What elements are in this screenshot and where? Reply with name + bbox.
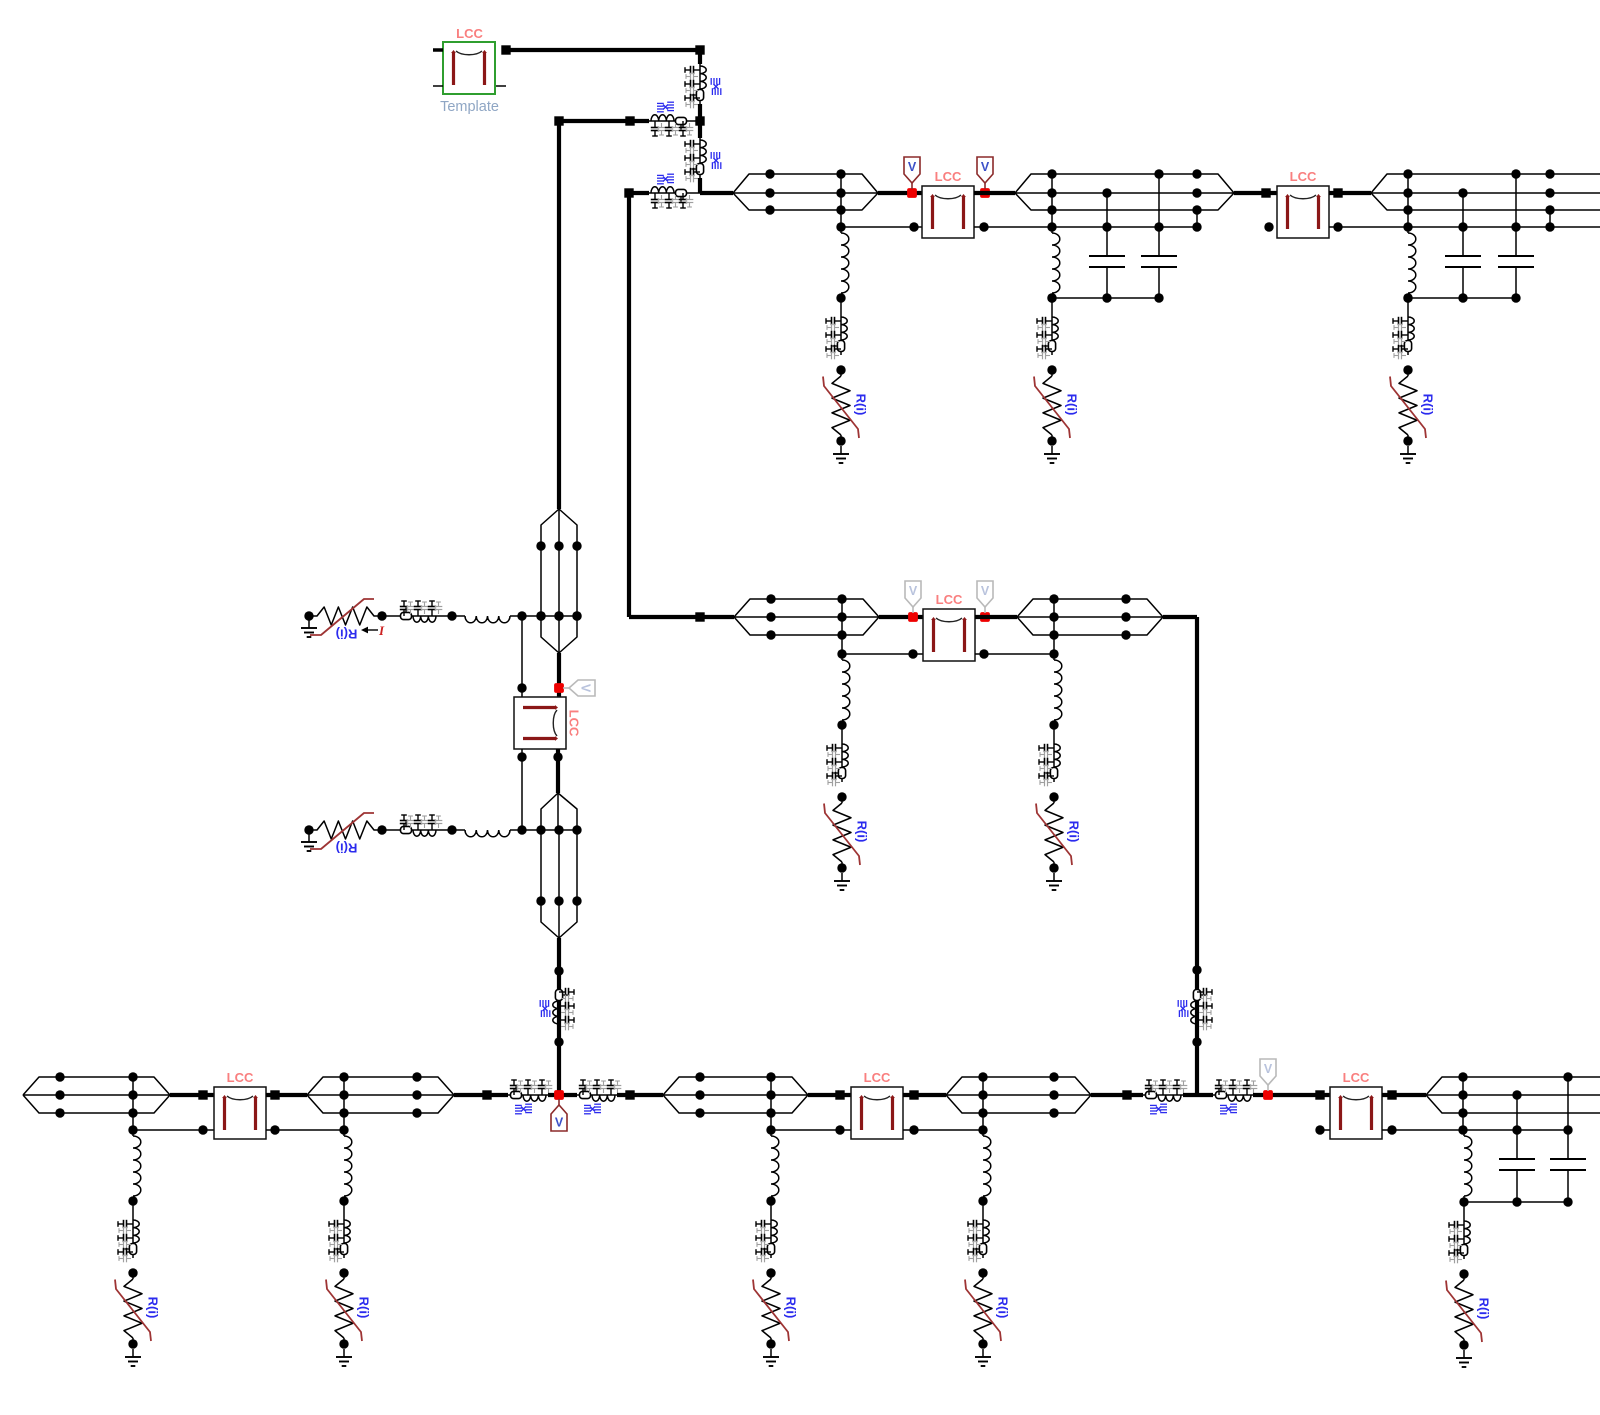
wire SA7 link bbox=[343, 1201, 345, 1218]
node center row-upper a bbox=[536, 611, 545, 620]
node x1052 b bbox=[1047, 188, 1056, 197]
node mid x1126 a bbox=[1121, 594, 1130, 603]
node SA5 bottom bbox=[1049, 863, 1058, 872]
wire bot east 1 bbox=[1091, 1093, 1143, 1097]
node x983 c bbox=[978, 1108, 987, 1117]
node SA2 mid bbox=[1047, 365, 1056, 374]
svg-text:R(i): R(i) bbox=[1065, 394, 1080, 416]
inductor SA4 shunt coil bbox=[842, 660, 850, 720]
node neutral LCC5 left bbox=[198, 1125, 207, 1134]
node C6 neutral bbox=[1563, 1125, 1572, 1134]
wire feeder vertical lower bbox=[698, 178, 702, 193]
ground SA3 bbox=[1407, 446, 1409, 454]
surge arrester R(i) source-lower bbox=[309, 821, 382, 839]
node source-lower 1 bbox=[377, 825, 386, 834]
wire template to corner bbox=[503, 48, 700, 52]
node neutral x1269 bbox=[1264, 222, 1273, 231]
surge arrester R(i) SA6 bbox=[132, 1273, 134, 1279]
wire bot phases seg5 bbox=[1463, 1076, 1600, 1078]
node x417 c bbox=[412, 1108, 421, 1117]
LCC line template block (green) bbox=[443, 42, 495, 94]
node SA9 mid bbox=[978, 1268, 987, 1277]
node x771 n bbox=[766, 1125, 775, 1134]
neutral stub LCC7 left bbox=[1320, 1129, 1330, 1131]
node SA8 coil-bottom bbox=[766, 1196, 775, 1205]
node C6 top bbox=[1563, 1072, 1572, 1081]
node corner branch A bbox=[554, 116, 563, 125]
inductor SA2 shunt coil bbox=[1052, 233, 1060, 293]
ground source-lower bbox=[308, 830, 310, 842]
wire feeder vertical mid bbox=[698, 104, 702, 138]
node bot e1 bbox=[1122, 1090, 1131, 1099]
RLC branch SA3 bbox=[1407, 315, 1409, 355]
node LCC7 bottom-left bbox=[1315, 1125, 1324, 1134]
node SA5 coil-bottom bbox=[1049, 720, 1058, 729]
svg-text:R(i): R(i) bbox=[1477, 1298, 1492, 1320]
svg-text:V: V bbox=[579, 684, 593, 693]
node x1054b a bbox=[1049, 1072, 1058, 1081]
node corner top bbox=[695, 45, 704, 54]
wire bot connector x344 bbox=[343, 1077, 345, 1130]
svg-text:LCC: LCC bbox=[935, 169, 962, 184]
node T1 phase b bbox=[765, 188, 774, 197]
svg-text:LCC: LCC bbox=[456, 26, 483, 41]
3-phase splitter M1 bbox=[734, 599, 771, 617]
wire bot phases seg4 bbox=[983, 1076, 1054, 1078]
inductor SA9 shunt coil bbox=[983, 1136, 991, 1196]
node M1 a bbox=[766, 594, 775, 603]
3-phase splitter B3 bbox=[307, 1077, 344, 1095]
3-phase merger T4 bbox=[1197, 174, 1234, 193]
wire top connector x1197 bbox=[1196, 210, 1198, 227]
3-phase merger B8 bbox=[1054, 1077, 1091, 1095]
svg-text:I: I bbox=[378, 623, 385, 638]
template stub pin left-bottom bbox=[433, 85, 443, 87]
node bus6 bbox=[1511, 293, 1520, 302]
node corner branch B bbox=[624, 188, 633, 197]
3-phase merger M4 bbox=[1126, 599, 1163, 617]
wire bot phases seg2 bbox=[344, 1076, 417, 1078]
neutral LCC5 right bbox=[266, 1129, 344, 1131]
svg-text:R(i): R(i) bbox=[336, 627, 358, 642]
node x1054b b bbox=[1049, 1090, 1058, 1099]
node x1197 n bbox=[1192, 222, 1201, 231]
svg-text:R(i): R(i) bbox=[1421, 394, 1436, 416]
node SA3 mid bbox=[1403, 365, 1412, 374]
wire SA1 link bbox=[840, 298, 842, 315]
node source-upper bundle a bbox=[536, 611, 545, 620]
node neutral LCC7 bbox=[1387, 1125, 1396, 1134]
current probe I bbox=[366, 629, 378, 631]
wire bot connector x133 bbox=[132, 1077, 134, 1130]
svg-text:LCC: LCC bbox=[227, 1070, 254, 1085]
RLC branch bot-east-right bbox=[1213, 1094, 1253, 1096]
3-phase splitter B5 bbox=[663, 1077, 700, 1095]
wire bot connector x1463 bbox=[1462, 1077, 1464, 1130]
node x1408 a bbox=[1403, 169, 1412, 178]
wire bot rlc join left bbox=[548, 1093, 577, 1097]
surge arrester R(i) SA3 bbox=[1407, 370, 1409, 376]
node SA6 mid bbox=[128, 1268, 137, 1277]
wire into LCC1 bbox=[878, 191, 922, 195]
svg-text:R(i): R(i) bbox=[357, 1297, 372, 1319]
wire mid phases seg1 bbox=[771, 598, 842, 600]
node after LCC5 bbox=[270, 1090, 279, 1099]
voltage probe V4 (inactive) bbox=[984, 607, 986, 613]
wire into LCC2 bbox=[1234, 191, 1277, 195]
wire LCC3 to splitter bbox=[975, 615, 1017, 619]
svg-text:V: V bbox=[981, 584, 990, 598]
surge arrester R(i) source-upper bbox=[309, 607, 382, 625]
RLC branch source-lower bbox=[398, 829, 438, 831]
RLC branch SA1 bbox=[840, 315, 842, 355]
template stub pin right-bottom bbox=[496, 85, 506, 87]
svg-text:R(i): R(i) bbox=[854, 394, 869, 416]
3-phase splitter T1 bbox=[733, 174, 770, 193]
node SA7 coil-bottom bbox=[339, 1196, 348, 1205]
RLC branch SA4 bbox=[841, 742, 843, 782]
node x983 n bbox=[978, 1125, 987, 1134]
svg-text:V: V bbox=[1264, 1062, 1273, 1076]
node mid x1126 c bbox=[1121, 630, 1130, 639]
node mid x1054 a bbox=[1049, 594, 1058, 603]
inductor source-upper bbox=[465, 616, 510, 623]
wire SA2 lead bbox=[1051, 227, 1053, 233]
node x700 a bbox=[695, 1072, 704, 1081]
surge arrester R(i) SA2 bbox=[1051, 370, 1053, 376]
node LCC4 in-left bbox=[517, 683, 526, 692]
ground SA7 bbox=[343, 1349, 345, 1357]
bus top shunt right bbox=[1408, 297, 1516, 299]
wire into LCC3 bbox=[879, 615, 923, 619]
LCC line block LCC7 bbox=[1330, 1087, 1382, 1139]
node V4 (red) bbox=[980, 612, 990, 622]
inductor SA5 shunt coil bbox=[1054, 660, 1062, 720]
inductor shunt x1464 bbox=[1463, 1130, 1465, 1136]
wire LCC4 left pin down bbox=[521, 749, 523, 830]
3-phase splitter B7 bbox=[946, 1077, 983, 1095]
ground SA1 bbox=[840, 446, 842, 454]
svg-text:LCC: LCC bbox=[567, 710, 582, 737]
3-phase splitter CV3 bbox=[541, 793, 558, 830]
wire source-lower b bbox=[438, 829, 465, 831]
node center above RLC bbox=[554, 966, 563, 975]
node x1408 c bbox=[1403, 205, 1412, 214]
3-phase merger B6 bbox=[771, 1077, 808, 1095]
ground SA9 bbox=[982, 1349, 984, 1357]
node mid x1126 b bbox=[1121, 612, 1130, 621]
node x1463 a bbox=[1458, 1072, 1467, 1081]
node x1463 c bbox=[1458, 1108, 1467, 1117]
node C3 neutral bbox=[1458, 222, 1467, 231]
svg-text:V: V bbox=[981, 160, 990, 174]
node SA7 mid bbox=[339, 1268, 348, 1277]
node x1197 b bbox=[1192, 188, 1201, 197]
node SA8 mid bbox=[766, 1268, 775, 1277]
node mid feed bbox=[695, 612, 704, 621]
wire bot connector x983 bbox=[982, 1077, 984, 1130]
surge arrester R(i) SA9 bbox=[982, 1273, 984, 1279]
node SA3 coil-bottom bbox=[1403, 293, 1412, 302]
neutral mid left bbox=[842, 653, 923, 655]
capacitor C2 bbox=[1158, 174, 1160, 256]
wire SA1 lead bbox=[840, 227, 842, 233]
node C2 top bbox=[1154, 169, 1163, 178]
node x700 b bbox=[695, 1090, 704, 1099]
node SA8 bottom bbox=[766, 1339, 775, 1348]
wire bot center left bbox=[454, 1093, 508, 1097]
node center below RLC bbox=[554, 1037, 563, 1046]
wire top connector x1408 bbox=[1407, 174, 1409, 227]
node busb3 bbox=[1563, 1197, 1572, 1206]
node x1550 b bbox=[1545, 188, 1554, 197]
node SA6 bottom bbox=[128, 1339, 137, 1348]
wire SA6 lead bbox=[132, 1130, 134, 1136]
node x1197 c bbox=[1192, 205, 1201, 214]
node x344 a bbox=[339, 1072, 348, 1081]
node x1052 a bbox=[1047, 169, 1056, 178]
wire source-lower a bbox=[382, 829, 398, 831]
node x700 c bbox=[695, 1108, 704, 1117]
wire top connector x841 bbox=[840, 174, 842, 227]
node template output bbox=[501, 45, 510, 54]
bus bottom shunt bbox=[1464, 1201, 1568, 1203]
node bot cr bbox=[625, 1090, 634, 1099]
node bus1 bbox=[1047, 293, 1056, 302]
node bus2 bbox=[1102, 293, 1111, 302]
node SA1 coil-bottom bbox=[836, 293, 845, 302]
node before LCC7 bbox=[1315, 1090, 1324, 1099]
svg-text:V: V bbox=[909, 584, 918, 598]
wire source-upper a bbox=[382, 615, 398, 617]
node after LCC7 bbox=[1387, 1090, 1396, 1099]
RLC branch F1 bbox=[699, 64, 701, 104]
wire SA2 link bbox=[1051, 298, 1053, 315]
wire top row feed bbox=[700, 191, 733, 195]
wire center lower vertical bbox=[557, 938, 561, 1095]
3-phase splitter B9 bbox=[1426, 1077, 1463, 1095]
node x417 b bbox=[412, 1090, 421, 1099]
node x1052 c bbox=[1047, 205, 1056, 214]
node x841 n bbox=[836, 222, 845, 231]
RLC branch B bbox=[649, 192, 689, 194]
node C3 top bbox=[1458, 188, 1467, 197]
wire top connector x1052 bbox=[1051, 174, 1053, 227]
node x133 c bbox=[128, 1108, 137, 1117]
wire SA9 lead bbox=[982, 1130, 984, 1136]
node x1408 b bbox=[1403, 188, 1412, 197]
node after LCC2 bbox=[1333, 188, 1342, 197]
wire branch A to feeder bbox=[689, 120, 700, 122]
neutral right of LCC2 bbox=[1329, 226, 1600, 228]
wire bot center right bbox=[617, 1093, 663, 1097]
node center row-upper b bbox=[554, 611, 563, 620]
surge arrester R(i) SA4 bbox=[841, 797, 843, 803]
wire center bundle upper bbox=[540, 546, 542, 616]
node bus3 bbox=[1154, 293, 1163, 302]
wire bot phases seg1 bbox=[60, 1076, 133, 1078]
RLC branch A bbox=[649, 120, 689, 122]
wire source-lower c bbox=[510, 829, 577, 831]
neutral LCC6 left bbox=[771, 1129, 851, 1131]
node x133 a bbox=[128, 1072, 137, 1081]
node LCC4 out-left bbox=[517, 752, 526, 761]
node source-upper tap bbox=[517, 611, 526, 620]
node T1 phase a bbox=[765, 169, 774, 178]
node V5 (red) bbox=[554, 683, 564, 693]
node neutral x1338 bbox=[1333, 222, 1342, 231]
node V1 (red) bbox=[907, 188, 917, 198]
node x1408 n bbox=[1403, 222, 1412, 231]
node mid x842 c bbox=[837, 630, 846, 639]
wire center bundle lower bbox=[540, 830, 542, 901]
ground SA4 bbox=[841, 873, 843, 881]
node SA9 coil-bottom bbox=[978, 1196, 987, 1205]
RLC branch SA10 bbox=[1463, 1219, 1465, 1259]
wire SA7 lead bbox=[343, 1130, 345, 1136]
node C2 neutral bbox=[1154, 222, 1163, 231]
node center row-lower b bbox=[554, 896, 563, 905]
node B1 b bbox=[55, 1090, 64, 1099]
wire LCC5 to splitter bbox=[266, 1093, 307, 1097]
node x1550 a bbox=[1545, 169, 1554, 178]
neutral LCC7 right bbox=[1382, 1129, 1568, 1131]
LCC line block LCC3 bbox=[923, 609, 975, 661]
node mid x1054 c bbox=[1049, 630, 1058, 639]
wire SA10 link bbox=[1463, 1202, 1465, 1219]
node C4 top bbox=[1511, 169, 1520, 178]
wire SA5 link bbox=[1053, 725, 1055, 742]
node source-lower gnd bbox=[304, 825, 313, 834]
inductor SA7 shunt coil bbox=[344, 1136, 352, 1196]
capacitor C4 bbox=[1515, 174, 1517, 256]
node x1550 c bbox=[1545, 205, 1554, 214]
LCC line block LCC5 bbox=[214, 1087, 266, 1139]
RLC branch bot-center bbox=[577, 1094, 617, 1096]
node SA9 bottom bbox=[978, 1339, 987, 1348]
wire mid connector x1054 bbox=[1053, 599, 1055, 654]
wire top connector x1550 bbox=[1549, 210, 1551, 227]
node SA3 bottom bbox=[1403, 436, 1412, 445]
bus top shunt left bbox=[1052, 297, 1159, 299]
node SA10 bottom bbox=[1459, 1340, 1468, 1349]
svg-text:LCC: LCC bbox=[1290, 169, 1317, 184]
node mid x1054 n bbox=[1049, 649, 1058, 658]
node C5 top bbox=[1512, 1090, 1521, 1099]
node T1 phase c bbox=[765, 205, 774, 214]
voltage probe V7 (inactive) bbox=[1267, 1085, 1269, 1091]
node x841 a bbox=[836, 169, 845, 178]
wire SA8 link bbox=[770, 1201, 772, 1218]
node bus4 bbox=[1403, 293, 1412, 302]
node CV1 c bbox=[572, 541, 581, 550]
node x344 b bbox=[339, 1090, 348, 1099]
node mid x842 b bbox=[837, 612, 846, 621]
wire LCC1 to splitter bbox=[974, 191, 1015, 195]
node center row-lower a bbox=[536, 896, 545, 905]
node mid x1054 b bbox=[1049, 612, 1058, 621]
node bot cl bbox=[482, 1090, 491, 1099]
node B1 a bbox=[55, 1072, 64, 1081]
node source-lower tap bbox=[517, 825, 526, 834]
neutral mid right bbox=[975, 653, 1054, 655]
node V7 (red) bbox=[1263, 1090, 1273, 1100]
svg-text:R(i): R(i) bbox=[855, 821, 870, 843]
node SA4 bottom bbox=[837, 863, 846, 872]
ground SA5 bbox=[1053, 873, 1055, 881]
node C1 neutral bbox=[1102, 222, 1111, 231]
neutral top left bbox=[841, 226, 922, 228]
inductor SA3 shunt coil bbox=[1408, 233, 1416, 293]
node x133 n bbox=[128, 1125, 137, 1134]
inductor SA6 shunt coil bbox=[133, 1136, 141, 1196]
wire source-upper c bbox=[510, 615, 577, 617]
wire mid to corner bbox=[1163, 615, 1197, 619]
RLC branch SA8 bbox=[770, 1218, 772, 1258]
RLC branch SA6 bbox=[132, 1218, 134, 1258]
RLC branch SA9 bbox=[982, 1218, 984, 1258]
node V2 (red) bbox=[980, 188, 990, 198]
node neutral x984 bbox=[979, 222, 988, 231]
node x1550 n bbox=[1545, 222, 1554, 231]
voltage probe V6 bbox=[558, 1099, 560, 1105]
wire SA5 lead bbox=[1053, 654, 1055, 660]
svg-text:R(i): R(i) bbox=[996, 1297, 1011, 1319]
node x771 b bbox=[766, 1090, 775, 1099]
wire SA4 link bbox=[841, 725, 843, 742]
node mid x842 a bbox=[837, 594, 846, 603]
svg-text:V: V bbox=[908, 160, 917, 174]
wire SA6 link bbox=[132, 1201, 134, 1218]
wire mid phases seg2 bbox=[1054, 598, 1126, 600]
3-phase splitter T5 bbox=[1371, 174, 1408, 193]
RLC branch SA5 bbox=[1053, 742, 1055, 782]
node branch A bbox=[625, 116, 634, 125]
wire mid connector x842 bbox=[841, 599, 843, 654]
3-phase splitter B1 (left edge) bbox=[23, 1077, 60, 1095]
node after LCC6 bbox=[909, 1090, 918, 1099]
node feeder junction A bbox=[695, 116, 704, 125]
RLC branch F2 bbox=[699, 138, 701, 178]
node V6 (red) bbox=[554, 1090, 564, 1100]
svg-text:LCC: LCC bbox=[1343, 1070, 1370, 1085]
wire top phases seg2 bbox=[1052, 173, 1197, 175]
surge arrester R(i) SA8 bbox=[770, 1273, 772, 1279]
wire SA9 link bbox=[982, 1201, 984, 1218]
wire bus east vertical bbox=[1195, 617, 1199, 1095]
node source-upper bundle c bbox=[572, 611, 581, 620]
node riser below RLC bbox=[1192, 1037, 1201, 1046]
ground SA10 bbox=[1463, 1350, 1465, 1358]
RLC branch source-upper bbox=[398, 615, 438, 617]
wire SA3 lead bbox=[1407, 227, 1409, 233]
wire bot east 3 bbox=[1253, 1093, 1330, 1097]
node source-lower 2 bbox=[447, 825, 456, 834]
node CV1 a bbox=[536, 541, 545, 550]
RLC branch bot-left bbox=[508, 1094, 548, 1096]
node mid neutral right bbox=[979, 649, 988, 658]
node SA2 coil-bottom bbox=[1047, 293, 1056, 302]
svg-text:R(i): R(i) bbox=[784, 1297, 799, 1319]
LCC line block LCC4 (rotated) bbox=[514, 697, 566, 749]
capacitor C1 bbox=[1106, 193, 1108, 256]
node neutral LCC6 left bbox=[835, 1125, 844, 1134]
node SA1 bottom bbox=[836, 436, 845, 445]
wire bus west vertical bbox=[557, 121, 561, 509]
node source-upper gnd bbox=[304, 611, 313, 620]
node SA1 mid bbox=[836, 365, 845, 374]
node before LCC2 bbox=[1261, 188, 1270, 197]
